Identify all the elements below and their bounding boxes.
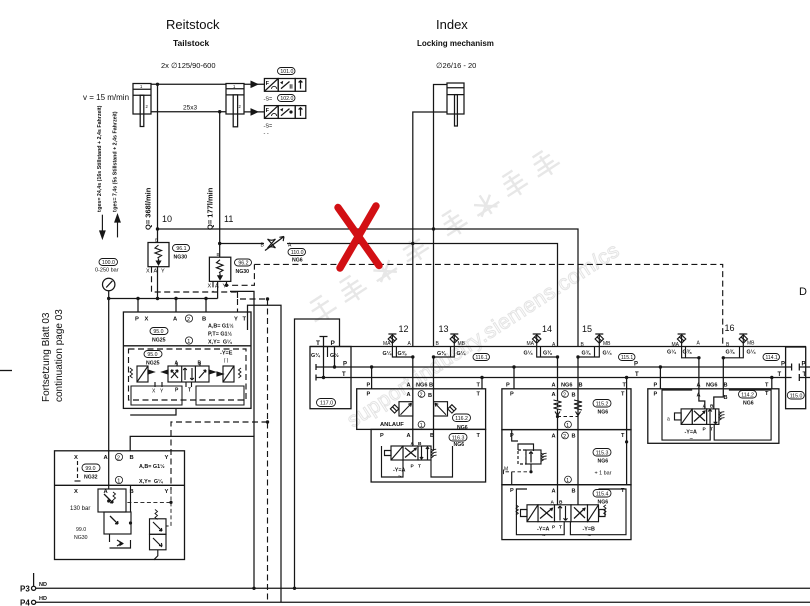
svg-text:B: B (724, 395, 728, 401)
junction node11 line (218, 242, 221, 245)
svg-text:~: ~ (542, 534, 546, 540)
svg-text:MB: MB (603, 341, 611, 347)
svg-text:1: 1 (420, 423, 423, 429)
svg-text:G⅜: G⅜ (726, 350, 735, 356)
G box ticks (396, 347, 739, 358)
relief valve 99 main stage (104, 512, 131, 534)
flow control A spring (554, 400, 562, 416)
svg-text:P: P (367, 383, 371, 389)
svg-text:t ges= 7,4s (5s Stillstand + 2: t ges= 7,4s (5s Stillstand + 2,4s Fahrze… (113, 111, 119, 212)
svg-text:99.0: 99.0 (76, 527, 86, 533)
block 95 inner dashed enclosure (129, 349, 247, 400)
svg-text:-S=: -S= (264, 124, 273, 130)
junction A (156, 297, 159, 300)
pilot to Y=E (238, 292, 268, 299)
junction pilot 96.2 (225, 284, 228, 287)
svg-text:-Y=E: -Y=E (220, 351, 233, 357)
svg-text:a: a (667, 417, 670, 423)
pilot branch to 99 block Y (171, 422, 268, 490)
svg-text:B: B (429, 383, 433, 389)
svg-text:Q= 177l/min: Q= 177l/min (206, 187, 215, 230)
svg-text:B: B (430, 433, 434, 439)
label 99.0 NG32 (82, 464, 100, 472)
svg-text:Reitstock: Reitstock (166, 17, 220, 32)
svg-text:B: B (710, 404, 714, 410)
wire A station16 (699, 358, 705, 409)
wire 96.1 A down (157, 267, 159, 299)
ellipse label 114.2 (739, 391, 757, 399)
svg-text:P,T= G1½: P,T= G1½ (208, 331, 233, 338)
svg-text:1: 1 (566, 423, 569, 429)
check valve MB st16 (723, 334, 747, 358)
rail T (316, 374, 810, 381)
solenoid valve 116.3 (385, 446, 437, 460)
ellipse label 116.3 (449, 434, 467, 442)
wire horizontal from node 11 (220, 243, 264, 245)
svg-text:B: B (428, 393, 432, 399)
svg-text:2x ∅125/90-600: 2x ∅125/90-600 (161, 61, 216, 70)
wire node11 vertical (219, 112, 221, 258)
annotation arrow tges up (115, 215, 120, 238)
block 99 port labels row1 (74, 455, 169, 461)
pipe to pressure switch 1 (244, 83, 264, 85)
wire B station13 (433, 357, 435, 451)
ellipse label 115.2 (593, 400, 611, 408)
svg-text:P: P (510, 488, 514, 494)
throttle check valve right (434, 402, 456, 416)
block 99 port labels row2 (74, 489, 169, 495)
junction node10 top (156, 83, 159, 86)
svg-text:NG6: NG6 (706, 382, 718, 388)
P stub station 12/13 (371, 367, 373, 389)
station 12/13 port labels (367, 382, 481, 399)
throttle valve 110.0 (265, 237, 284, 251)
long riser ND right (295, 319, 340, 588)
svg-text:A: A (551, 500, 555, 506)
svg-text:B: B (155, 238, 158, 243)
pilot X dashed stub 99 (77, 461, 79, 481)
manifold top line (310, 346, 806, 348)
station 16 box 114.2 (648, 389, 779, 444)
junction index A (411, 242, 414, 245)
relief 99 drain poppet (110, 534, 131, 548)
pilot long dashed to station16 (254, 264, 722, 345)
svg-text:D: D (799, 286, 807, 298)
svg-text:ANLAUF: ANLAUF (380, 422, 404, 428)
pressure switch S1 (264, 79, 305, 92)
svg-text:B: B (559, 500, 563, 506)
svg-text:A: A (552, 392, 556, 398)
ellipse label 115.0 (787, 392, 804, 400)
svg-text:12: 12 (399, 324, 409, 334)
wire B station15 (577, 357, 579, 505)
svg-text:Y: Y (161, 269, 165, 275)
svg-text:A,B= G1½: A,B= G1½ (208, 323, 234, 330)
arrow to switch 1 (251, 81, 260, 89)
svg-text:continuation page 03: continuation page 03 (54, 309, 65, 402)
cylinder 2 (Reitstock right) (226, 84, 244, 127)
svg-text:T: T (477, 433, 481, 439)
connector A 95 to 99 (130, 408, 176, 415)
relief valve 99 pilot head (98, 485, 131, 548)
svg-text:NG6: NG6 (598, 410, 609, 416)
svg-text:Index: Index (436, 17, 468, 32)
svg-text:T: T (765, 383, 769, 389)
svg-text:G⅜: G⅜ (543, 351, 552, 357)
wire A station12 (412, 357, 414, 451)
svg-text:X: X (146, 269, 150, 275)
svg-text:T: T (342, 372, 346, 378)
dashed link between flow controls (558, 416, 579, 418)
svg-text:MA: MA (527, 341, 535, 347)
label 95.0 NG25 inner (144, 351, 162, 359)
svg-text:NG25: NG25 (152, 338, 166, 344)
svg-text:t ges= 24,4s (16s Stillstand +: t ges= 24,4s (16s Stillstand + 2,4s Fahr… (97, 105, 103, 212)
svg-text:P4: P4 (20, 599, 30, 606)
svg-text:MB: MB (747, 341, 755, 347)
check valve port labels (383, 341, 755, 349)
wire A down to block 95 (175, 299, 177, 313)
wire index B (top port) (434, 85, 448, 347)
wire B down to block 95 (205, 299, 207, 313)
wire A station14 (557, 357, 559, 505)
svg-text:B: B (198, 361, 202, 367)
svg-text:MA: MA (672, 342, 680, 348)
T stub station 14/15 (626, 378, 628, 485)
station 14/15 middle port labels (510, 433, 625, 440)
watermark diagonal band (283, 146, 624, 433)
junction index B (432, 227, 435, 230)
junction B (174, 297, 177, 300)
ellipse label 116.1 (473, 354, 490, 362)
svg-text:1: 1 (187, 339, 190, 345)
ellipse label 116.2 (453, 414, 471, 422)
svg-text:G¼: G¼ (383, 350, 392, 357)
svg-text:∅26/16 - 20: ∅26/16 - 20 (436, 61, 476, 70)
solenoid valve 114.2 (675, 409, 725, 425)
svg-text:T: T (188, 388, 191, 394)
svg-text:T: T (477, 383, 481, 389)
svg-text:A: A (407, 383, 411, 389)
svg-text:NG6: NG6 (743, 401, 754, 407)
pilot X 96.1 down (152, 267, 238, 292)
svg-text:B: B (202, 317, 206, 323)
junction P (136, 297, 139, 300)
left edge tick (0, 370, 12, 372)
svg-text:P: P (343, 362, 347, 368)
svg-text:2: 2 (187, 317, 190, 323)
junction node10 line (156, 227, 159, 230)
junction node11 top (218, 110, 221, 113)
pilot Y 95 block (237, 299, 239, 312)
station 14/15 upper box 115.2 (502, 389, 631, 430)
svg-text:B: B (217, 252, 220, 257)
svg-text:99.0: 99.0 (85, 466, 95, 472)
svg-text:G⅜: G⅜ (683, 350, 692, 356)
svg-text:Tailstock: Tailstock (173, 38, 209, 48)
svg-text:110.0: 110.0 (291, 250, 304, 256)
svg-text:B: B (572, 434, 576, 440)
svg-text:NG30: NG30 (174, 255, 188, 261)
svg-text:A: A (411, 441, 415, 447)
station 16 inner wells (662, 390, 771, 440)
rail P (316, 364, 810, 371)
junction pilot branch (266, 420, 269, 423)
svg-text:NG6: NG6 (598, 459, 609, 465)
wire 96.2 A down (217, 281, 219, 298)
svg-text:T: T (418, 464, 421, 470)
pilot dashed 99 internals (126, 490, 171, 526)
check valve MA st14 (533, 334, 558, 357)
svg-text:NG32: NG32 (84, 475, 98, 481)
circled 1 in block 95 (185, 337, 192, 345)
svg-text:16: 16 (725, 323, 735, 333)
circled 2 in block 95 (185, 315, 192, 323)
svg-text:15: 15 (582, 324, 592, 334)
svg-text:116.3: 116.3 (452, 435, 465, 441)
svg-text:G¼: G¼ (457, 350, 466, 357)
pressure gauge 100.0 (103, 278, 115, 298)
junction gauge (107, 297, 110, 300)
valve block 99.0 outline (55, 451, 185, 560)
T stub station 12/13 (481, 378, 483, 389)
svg-text:14: 14 (542, 324, 552, 334)
label 96.1 NG30 (173, 245, 190, 253)
svg-text:P: P (331, 340, 336, 347)
svg-text:114.1: 114.1 (766, 355, 778, 361)
svg-text:1: 1 (117, 479, 120, 485)
T stub station 16 (771, 378, 773, 389)
long riser HD left (248, 305, 282, 602)
svg-text:B: B (130, 455, 134, 461)
svg-text:T: T (778, 372, 782, 378)
svg-text:P: P (367, 392, 371, 398)
svg-text:0-250 bar: 0-250 bar (95, 268, 119, 274)
station 14/15 inner wells (516, 489, 626, 535)
circled 1 in block 99 (115, 476, 122, 484)
svg-text:Y: Y (165, 489, 169, 495)
station 12/13 inner wells (382, 446, 453, 477)
svg-text:A: A (552, 489, 556, 495)
svg-text:101.0: 101.0 (280, 69, 293, 75)
drain wire Y to ND rail (230, 291, 254, 436)
svg-text:B: B (579, 383, 583, 389)
svg-text:~: ~ (690, 437, 694, 443)
cylinder 1 (Reitstock left) (133, 84, 151, 127)
pressure reducing valve 115.3 (512, 430, 547, 485)
svg-text:-Y=A: -Y=A (537, 527, 550, 533)
svg-text:95.0: 95.0 (147, 352, 157, 358)
flow control B spring (574, 400, 582, 416)
svg-text:Y: Y (165, 455, 169, 461)
pipe bottom between cylinders (151, 111, 226, 113)
svg-text:G⅜: G⅜ (582, 351, 591, 357)
circled 2 in block 99 (115, 453, 122, 461)
G thread size labels (383, 349, 756, 358)
svg-text:P: P (380, 433, 384, 439)
connection block 117.0 (310, 347, 351, 409)
T stub into block (320, 337, 335, 378)
svg-text:95.0: 95.0 (153, 329, 163, 335)
enclosure box right of 99 (130, 436, 254, 588)
svg-text:Q= 368l/min: Q= 368l/min (144, 187, 153, 230)
label 101.0 (278, 68, 296, 76)
arrow to switch 2 (251, 108, 260, 116)
P stub into block (334, 347, 336, 368)
station 14/15 port labels (506, 382, 627, 398)
junction pilot corner (266, 297, 269, 300)
svg-text:2: 2 (563, 434, 566, 440)
svg-text:~: ~ (588, 534, 592, 540)
pipe to pressure switch 2 (244, 111, 264, 113)
svg-text:G¼: G¼ (747, 349, 756, 356)
svg-text:NG30: NG30 (236, 269, 250, 275)
svg-text:T: T (559, 525, 562, 531)
svg-text:P: P (654, 392, 658, 398)
svg-text:MB: MB (458, 341, 466, 347)
svg-text:P: P (781, 362, 785, 368)
svg-text:116.1: 116.1 (476, 355, 488, 361)
pilot Y 96.2 to riser (227, 264, 255, 285)
svg-text:2: 2 (117, 456, 120, 462)
svg-text:NG6: NG6 (457, 425, 468, 431)
label 117.0 (317, 399, 336, 407)
check valve MB st15 (578, 334, 604, 357)
svg-text:11: 11 (224, 214, 233, 224)
right edge block 115.0 (786, 347, 806, 409)
svg-text:NG6: NG6 (416, 382, 428, 388)
svg-text:+ 1 bar: + 1 bar (595, 471, 612, 477)
svg-text:P: P (506, 383, 510, 389)
P stub station 16 (659, 367, 661, 389)
rail junction dots (322, 365, 774, 379)
P stub station 14/15 (513, 367, 515, 389)
ellipse label 115.1 (619, 354, 636, 362)
svg-text:100.0: 100.0 (102, 260, 115, 266)
check valve MA st16 (677, 334, 699, 358)
svg-text:G⅜: G⅜ (398, 351, 407, 357)
station 12/13 lower port labels (380, 433, 481, 439)
svg-text:X,Y= G¼: X,Y= G¼ (208, 339, 232, 346)
label 110.0 NG6 (288, 249, 306, 257)
svg-text:1: 1 (566, 478, 569, 484)
svg-text:G¾: G¾ (311, 352, 320, 359)
svg-text:2: 2 (563, 392, 566, 398)
svg-text:2: 2 (420, 392, 423, 398)
solenoid valve 115.4 (516, 505, 606, 522)
svg-text:Y: Y (234, 317, 238, 323)
proportional valve 95 (130, 362, 241, 387)
circled 1 station 115.3 (565, 476, 572, 484)
cartridge valve 96.2 (209, 257, 230, 281)
station 16 port labels (654, 382, 770, 401)
svg-text:P: P (634, 362, 638, 368)
svg-text:T: T (243, 317, 247, 323)
svg-text:NG6: NG6 (292, 258, 303, 264)
label 95.0 NG25 (150, 328, 168, 336)
svg-text:A: A (552, 434, 556, 440)
svg-text:NG6: NG6 (454, 442, 465, 448)
check valve MA st12 (388, 334, 413, 357)
station 12/13 upper box 116.2 (357, 389, 486, 430)
svg-text:10: 10 (162, 214, 172, 224)
ellipse label 115.4 (593, 490, 611, 498)
svg-text:-S=: -S= (264, 97, 273, 103)
circled 1 station12 (418, 421, 425, 429)
rail P labels (343, 362, 806, 368)
svg-text:ND: ND (39, 582, 47, 588)
svg-text:v = 15 m/min: v = 15 m/min (83, 93, 129, 102)
svg-text:G¼: G¼ (603, 350, 612, 357)
svg-text:A,B= G1½: A,B= G1½ (139, 463, 165, 470)
svg-text:25x3: 25x3 (183, 105, 197, 112)
svg-text:-Y=A: -Y=A (685, 430, 698, 436)
cartridge valve 96.1 (148, 243, 169, 267)
wire node10 vertical (157, 84, 159, 242)
rail T labels (342, 372, 807, 378)
rail P4 HD (31, 600, 810, 604)
svg-text:B: B (418, 441, 422, 447)
svg-text:B: B (724, 383, 728, 389)
svg-text:NG6: NG6 (598, 500, 609, 506)
rail P3 ND (31, 573, 810, 590)
svg-text:115.3: 115.3 (596, 450, 609, 456)
pipe top between cylinders (151, 83, 226, 85)
index cylinder (413, 83, 464, 347)
pressure switch S2 (264, 106, 305, 119)
svg-text:G¼: G¼ (524, 350, 533, 357)
check valve MB st13 (434, 334, 459, 357)
svg-text:A: A (407, 433, 411, 439)
svg-text:116.2: 116.2 (455, 416, 468, 422)
label 96.2 NG30 (235, 259, 252, 267)
throttle check valve left (390, 402, 412, 416)
ellipse label 115.3 (593, 449, 611, 457)
svg-text:T: T (621, 392, 625, 398)
pilot dashed network (152, 264, 723, 602)
svg-text:P: P (802, 362, 806, 368)
svg-text:A: A (175, 361, 179, 367)
svg-text:X: X (145, 317, 149, 323)
svg-text:T: T (621, 433, 625, 439)
station 14/15 lower port labels (510, 488, 625, 495)
svg-text:T: T (316, 340, 320, 347)
block 95 inner wells (131, 386, 244, 405)
rail junction dots (252, 587, 296, 590)
svg-text:NG30: NG30 (74, 535, 88, 541)
svg-text:G¼: G¼ (667, 349, 676, 356)
svg-text:A: A (552, 382, 556, 388)
circled 2 station14 (562, 391, 569, 399)
svg-text:X,Y= G¼: X,Y= G¼ (139, 478, 163, 485)
svg-text:115.1: 115.1 (621, 355, 633, 361)
sequence valve 99 right (150, 510, 167, 560)
svg-text:T: T (477, 392, 481, 398)
svg-text:HD: HD (39, 596, 47, 602)
valve block 95.0 outline (123, 312, 251, 408)
svg-text:Fortsetzung Blatt 03: Fortsetzung Blatt 03 (41, 312, 52, 402)
svg-text:A: A (703, 404, 707, 410)
block 95 port labels row (135, 317, 247, 323)
wire gauge to 99 block A (108, 299, 110, 486)
svg-text:P3: P3 (20, 585, 30, 594)
svg-text:130 bar: 130 bar (70, 506, 90, 512)
svg-text:MA: MA (383, 341, 391, 347)
svg-text:B: B (572, 489, 576, 495)
pilot X 96.2 down (212, 281, 214, 292)
svg-text:G⅜: G⅜ (437, 351, 446, 357)
station 14/15 middle box 115.3 (502, 430, 631, 485)
